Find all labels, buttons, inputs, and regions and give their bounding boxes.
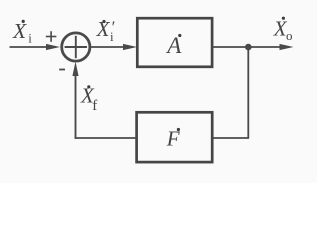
- node: takeoff point dot: [245, 44, 252, 51]
- wire: input line: [10, 46, 49, 48]
- minus sign at feedback input: [59, 69, 65, 71]
- svg-text:f: f: [92, 98, 97, 114]
- wire: takeoff point down: [247, 47, 249, 138]
- svg-text:i: i: [110, 29, 114, 44]
- node label Xi' (error signal): [96, 17, 115, 44]
- summing junction cross: [65, 36, 87, 58]
- wire: down leg to block F: [212, 137, 249, 139]
- wire: summing junction to block A: [90, 46, 125, 48]
- node label Xo (output signal): [273, 16, 293, 43]
- svg-text:o: o: [286, 28, 293, 43]
- svg-text:i: i: [28, 30, 32, 45]
- wire: block A to output: [213, 46, 282, 48]
- arrowhead into block A: [123, 44, 137, 50]
- node label Xi (input signal): [12, 19, 32, 46]
- node label Xf (feedback signal): [80, 83, 97, 114]
- svg-text:A: A: [165, 33, 182, 58]
- block A (forward amplifier): [137, 18, 212, 67]
- arrowhead into summing junction bottom: [72, 62, 78, 76]
- wire: block F to feedback riser: [75, 137, 137, 139]
- svg-text:X: X: [12, 19, 27, 43]
- svg-text:F: F: [166, 126, 180, 150]
- summing junction circle: [62, 33, 90, 61]
- label F-dot inside block: [166, 126, 180, 150]
- plus sign at summing input: [46, 31, 57, 42]
- wire: feedback riser up to summing junction: [75, 74, 77, 139]
- svg-text:X: X: [96, 17, 111, 41]
- block F (feedback network): [137, 112, 213, 162]
- arrowhead at output: [280, 44, 294, 50]
- label A-dot inside block: [165, 33, 182, 58]
- arrowhead into summing junction: [46, 44, 60, 50]
